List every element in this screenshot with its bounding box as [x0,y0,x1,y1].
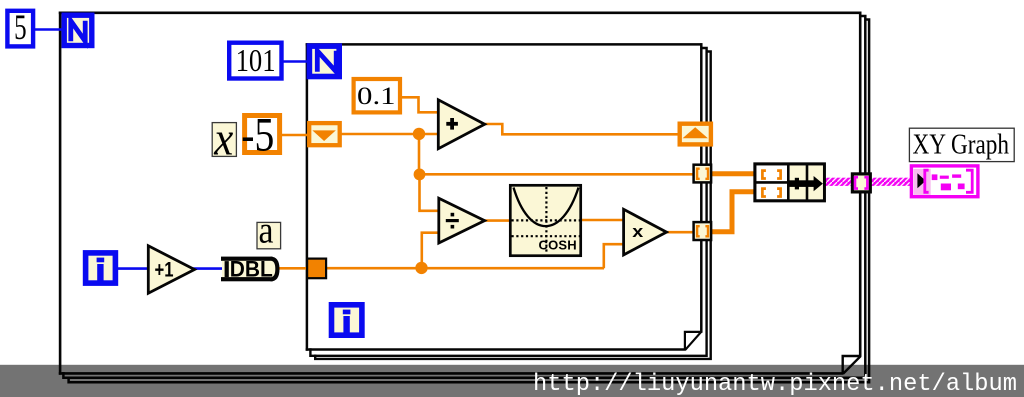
wire elbow up to multiply bottom input [604,244,625,268]
wire i to +1 [117,267,149,270]
svg-text:x: x [213,113,233,166]
array wire upper tunnel to build array [711,171,756,176]
outer loop count terminal N [64,15,92,45]
junction dot D1 [413,128,425,140]
wire D3 up to divide bottom input [422,233,440,268]
label a [257,210,281,252]
wire tunnel through D3 rightwards [325,267,604,270]
wire left shift register to plus input [341,133,439,136]
wire junction D1 down to D2 [418,134,421,174]
left shift register (down arrow) [309,123,340,145]
inner loop stacked frame 2 [310,48,706,356]
svg-text:http://liuyunantw.pixnet.net/a: http://liuyunantw.pixnet.net/album [533,371,1017,397]
array wire lower tunnel to build array [711,192,756,232]
svg-text:x: x [632,222,644,241]
divide node [439,198,485,243]
svg-text:101: 101 [236,43,276,78]
multiply node x [624,209,667,255]
lower indexing tunnel [694,222,712,240]
inner loop stacked frame 3 [315,52,711,359]
constant 5 [7,7,33,47]
svg-text:-5: -5 [241,108,274,161]
wire D2 to upper tunnel [419,173,694,176]
constant 101 [229,43,281,79]
increment node +1 [148,246,194,293]
wire COSH to multiply [580,219,625,222]
outer loop stacked frame 3 [69,20,870,383]
wire 5 to outer N [34,28,62,31]
build array node [755,164,825,201]
watermark bar [0,365,1024,397]
svg-text:5: 5 [14,7,27,47]
right shift register (up arrow) [680,124,711,145]
output tunnel on outer loop [852,174,870,192]
DBL conversion node [221,257,277,282]
wire divide output to COSH [484,219,511,222]
add node + [438,100,484,149]
XY Graph indicator terminal [911,166,978,197]
XY Graph label [909,128,1014,161]
wire DBL to loop tunnel [278,267,308,270]
wire 0.1 to plus input [401,97,439,112]
junction dot D2 [414,169,426,181]
svg-text:XY Graph: XY Graph [913,129,1010,161]
svg-text:a: a [259,210,274,252]
upper indexing tunnel [694,165,712,183]
inner for loop frame [306,43,703,351]
wire multiply output to lower tunnel [666,231,694,234]
svg-text:COSH: COSH [539,238,577,253]
inner loop count terminal N [309,46,339,76]
wire D2 down to divide top input [420,174,440,211]
pink array-of-cluster wire to XY Graph [824,178,912,186]
inner loop fold corner [685,331,702,350]
orange input tunnel for a [307,259,326,279]
outer loop iteration terminal i [86,253,116,283]
wire -5 to left shift register [281,134,309,137]
outer for loop frame [59,12,862,375]
label x [212,113,236,166]
COSH function icon [510,185,580,255]
outer loop fold corner [843,355,862,374]
constant 0.1 [354,79,400,112]
svg-text:DBL: DBL [230,257,273,282]
constant -5 [241,108,279,161]
wire +1 to DBL [193,267,223,270]
wire plus output to right shift register [484,124,678,134]
junction dot D3 [415,262,427,274]
svg-text:+1: +1 [155,259,174,282]
inner loop iteration terminal i [332,305,362,335]
outer loop stacked frame 2 [63,16,865,378]
svg-text:0.1: 0.1 [357,81,396,110]
wire 101 to inner N [283,60,308,63]
